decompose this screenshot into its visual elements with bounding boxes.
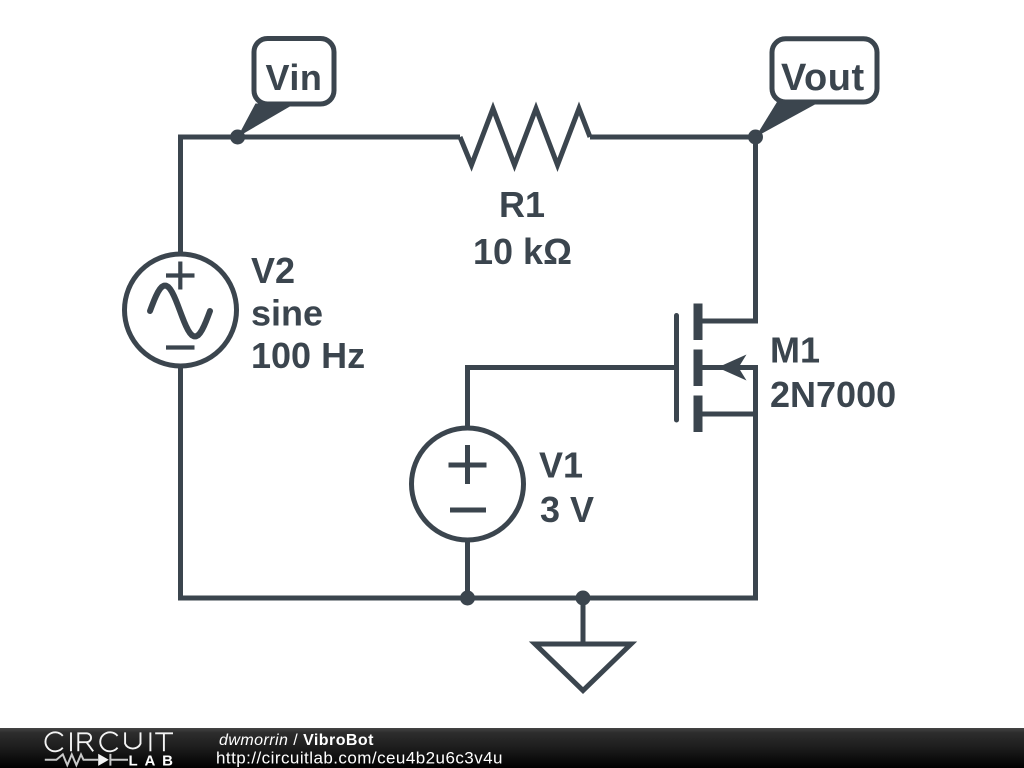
wire V1 bottom stub bbox=[465, 538, 470, 598]
wire gate (V1 to MOSFET gate) bbox=[468, 365, 675, 430]
voltage source V1 (DC) bbox=[412, 428, 524, 540]
wire bottom rail bbox=[178, 596, 758, 601]
junction dot ground tap bbox=[576, 591, 591, 606]
svg-text:Vin: Vin bbox=[266, 57, 323, 98]
node Vout flag bbox=[756, 39, 878, 137]
svg-text:Vout: Vout bbox=[781, 57, 865, 99]
junction dot V1-bottom bbox=[460, 591, 475, 606]
svg-text:100 Hz: 100 Hz bbox=[251, 335, 365, 376]
wire right vertical (Vout node to drain) bbox=[753, 135, 758, 322]
wire right vertical (MOSFET source to bottom rail) bbox=[753, 368, 758, 599]
footer bar bbox=[0, 728, 1024, 768]
svg-text:sine: sine bbox=[251, 293, 323, 334]
CircuitLab logo circuit glyph (wire, resistor, diode) bbox=[45, 754, 128, 766]
svg-text:10 kΩ: 10 kΩ bbox=[473, 231, 572, 272]
svg-text:V2: V2 bbox=[251, 250, 295, 291]
voltage source V2 (sine) bbox=[125, 254, 237, 366]
node Vout junction dot bbox=[748, 130, 763, 145]
svg-text:M1: M1 bbox=[770, 330, 820, 371]
wire top rail right segment bbox=[590, 135, 758, 140]
resistor R1 bbox=[460, 109, 590, 166]
wire top rail left segment bbox=[178, 135, 460, 140]
svg-text:LAB: LAB bbox=[129, 752, 180, 768]
node Vin flag bbox=[238, 39, 334, 138]
svg-text:http://circuitlab.com/ceu4b2u6: http://circuitlab.com/ceu4b2u6c3v4u bbox=[216, 749, 503, 768]
svg-text:2N7000: 2N7000 bbox=[770, 374, 896, 415]
ground bbox=[535, 598, 631, 691]
svg-text:dwmorrin / VibroBot: dwmorrin / VibroBot bbox=[219, 732, 374, 749]
svg-text:3 V: 3 V bbox=[540, 489, 594, 530]
svg-text:V1: V1 bbox=[539, 445, 583, 486]
node Vin junction dot bbox=[230, 130, 245, 145]
wire left vertical (Vin node to bottom rail) bbox=[178, 137, 183, 598]
transistor M1 (NMOS 2N7000) bbox=[677, 304, 759, 433]
svg-text:R1: R1 bbox=[499, 184, 545, 225]
CircuitLab logo wordmark CIRCUIT bbox=[45, 732, 173, 751]
